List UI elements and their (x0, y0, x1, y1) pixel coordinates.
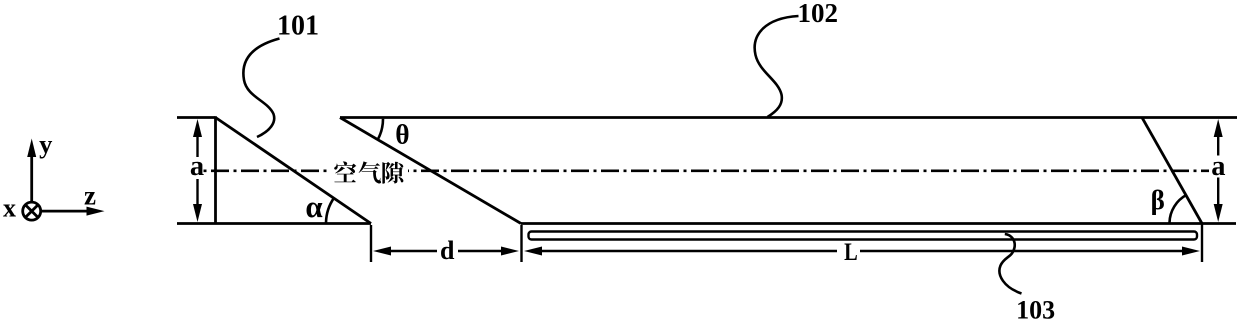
prism 102 top edge (340, 116, 1237, 119)
left dimension a line lower segment (196, 179, 198, 207)
svg-text:z: z (84, 181, 96, 211)
dimension L left arrowhead (524, 247, 542, 256)
right dimension a down arrowhead (1214, 204, 1223, 222)
dimension d line right segment (458, 250, 504, 252)
svg-text:α: α (305, 189, 322, 224)
extension line below wedge tip (370, 225, 372, 262)
svg-text:β: β (1151, 185, 1165, 215)
y axis arrowhead (27, 139, 36, 158)
air gap text kong (334, 161, 356, 182)
dimension L line right segment (860, 250, 1184, 252)
z axis arrowhead (87, 207, 105, 216)
angle beta arc at prism output corner (1170, 195, 1187, 223)
svg-text:x: x (3, 194, 16, 223)
angle theta arc at prism input corner (378, 119, 383, 140)
leader squiggle to 103 (999, 234, 1021, 294)
left dimension a up arrowhead (193, 119, 202, 137)
prism 102 left slanted input face (340, 118, 521, 224)
dimension d right arrowhead (501, 247, 519, 256)
dimension d left arrowhead (373, 247, 391, 256)
prism 102 bottom edge (521, 222, 1236, 225)
dimension d line left segment (388, 250, 437, 252)
coordinate origin circle with cross (x axis into page) (23, 202, 41, 220)
right dimension a line upper segment (1217, 133, 1219, 156)
extension line below prism lower-left corner (520, 225, 522, 262)
right dimension a line lower segment (1217, 178, 1219, 208)
svg-text:103: 103 (1016, 296, 1055, 323)
wedge 101 bottom edge (177, 222, 371, 225)
left dimension a down arrowhead (193, 204, 202, 222)
y axis line (30, 156, 33, 202)
z axis line (41, 210, 88, 213)
white mask under right a label (1209, 159, 1227, 182)
svg-text:a: a (1211, 151, 1225, 182)
prism 102 right slanted output face (1142, 118, 1202, 224)
leader squiggle to 102 (755, 16, 799, 117)
svg-text:y: y (39, 129, 52, 159)
air gap text qi (359, 161, 381, 183)
right dimension a up arrowhead (1214, 119, 1223, 137)
wedge 101 top edge (177, 116, 216, 119)
svg-text:L: L (844, 237, 858, 266)
dash-dot optical axis center line (204, 170, 1210, 173)
left dimension a line upper segment (196, 133, 198, 157)
svg-text:102: 102 (797, 0, 838, 28)
wedge 101 vertical left face (214, 116, 217, 223)
svg-text:θ: θ (395, 119, 409, 150)
extension line below prism lower-right corner (1201, 224, 1203, 262)
thin layer 103 rectangle (529, 232, 1198, 240)
dimension L right arrowhead (1182, 247, 1200, 256)
dimension L line left segment (540, 250, 837, 252)
air gap text xi (382, 162, 403, 184)
angle alpha arc at wedge tip (326, 198, 334, 223)
white mask under air-gap text (331, 158, 408, 184)
svg-text:a: a (190, 151, 204, 182)
svg-text:101: 101 (277, 11, 319, 42)
svg-text:d: d (440, 236, 455, 265)
leader squiggle to 101 (243, 39, 279, 138)
wedge 101 hypotenuse slanted face (216, 118, 372, 224)
